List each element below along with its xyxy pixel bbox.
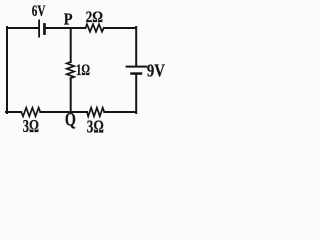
resistor R4 3ohm right zigzag — [87, 108, 104, 117]
wire top-mid (battery to node P to 2ohm) — [46, 27, 86, 29]
battery B1 6V long plate — [38, 20, 40, 38]
wire bottom-right (corner to 3ohm right) — [104, 111, 136, 113]
battery B2 9V short plate — [130, 72, 142, 75]
svg-text:9V: 9V — [147, 60, 165, 80]
battery B1 6V short plate — [43, 23, 46, 35]
wire middle upper (node P stub down to 1ohm) — [70, 28, 72, 62]
svg-text:6V: 6V — [32, 3, 46, 20]
resistor R1 2ohm zigzag — [86, 24, 104, 32]
svg-text:Q: Q — [65, 109, 76, 130]
wire top-right (2ohm to top-right corner) — [104, 27, 136, 29]
wire top-left (left corner to 6V battery) — [7, 27, 38, 29]
wire right upper (corner down to 9V battery) — [135, 27, 137, 66]
svg-text:P: P — [64, 9, 73, 28]
svg-text:1Ω: 1Ω — [76, 62, 90, 79]
wire left (left side vertical) — [6, 27, 8, 113]
resistor R2 1ohm vertical zigzag — [67, 62, 75, 78]
battery B2 9V long plate — [126, 66, 148, 68]
svg-text:3Ω: 3Ω — [23, 116, 39, 135]
resistor R3 3ohm left zigzag — [21, 108, 40, 117]
wire bottom-left (3ohm left to left corner) — [6, 111, 21, 113]
svg-text:2Ω: 2Ω — [86, 9, 104, 26]
wire bottom-mid (3ohm right to node Q) — [40, 111, 87, 113]
wire right lower (9V battery to bottom-right corner) — [135, 75, 137, 114]
wire middle lower (1ohm down to node Q) — [70, 78, 72, 112]
svg-text:3Ω: 3Ω — [87, 117, 104, 136]
